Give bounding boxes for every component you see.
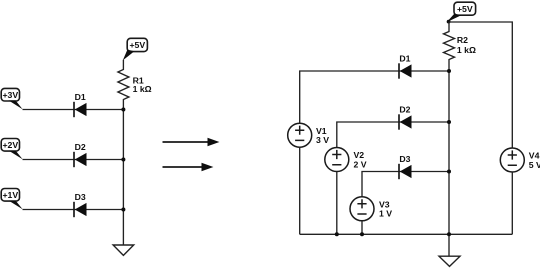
svg-text:1 kΩ: 1 kΩ	[457, 45, 476, 55]
svg-text:D3: D3	[75, 192, 86, 202]
svg-text:D1: D1	[399, 53, 410, 63]
svg-text:+5V: +5V	[457, 4, 473, 14]
svg-text:+1V: +1V	[2, 190, 18, 200]
svg-text:D1: D1	[75, 92, 86, 102]
svg-text:+2V: +2V	[2, 140, 18, 150]
svg-text:D3: D3	[399, 154, 410, 164]
svg-text:3 V: 3 V	[316, 135, 329, 145]
svg-text:R2: R2	[457, 35, 468, 45]
svg-text:1 kΩ: 1 kΩ	[133, 84, 152, 94]
svg-text:+5V: +5V	[129, 40, 145, 50]
svg-text:5 V: 5 V	[529, 160, 540, 170]
svg-text:D2: D2	[75, 142, 86, 152]
svg-text:D2: D2	[399, 104, 410, 114]
svg-text:+3V: +3V	[2, 90, 18, 100]
svg-text:1 V: 1 V	[379, 209, 392, 219]
svg-text:2 V: 2 V	[354, 159, 367, 169]
